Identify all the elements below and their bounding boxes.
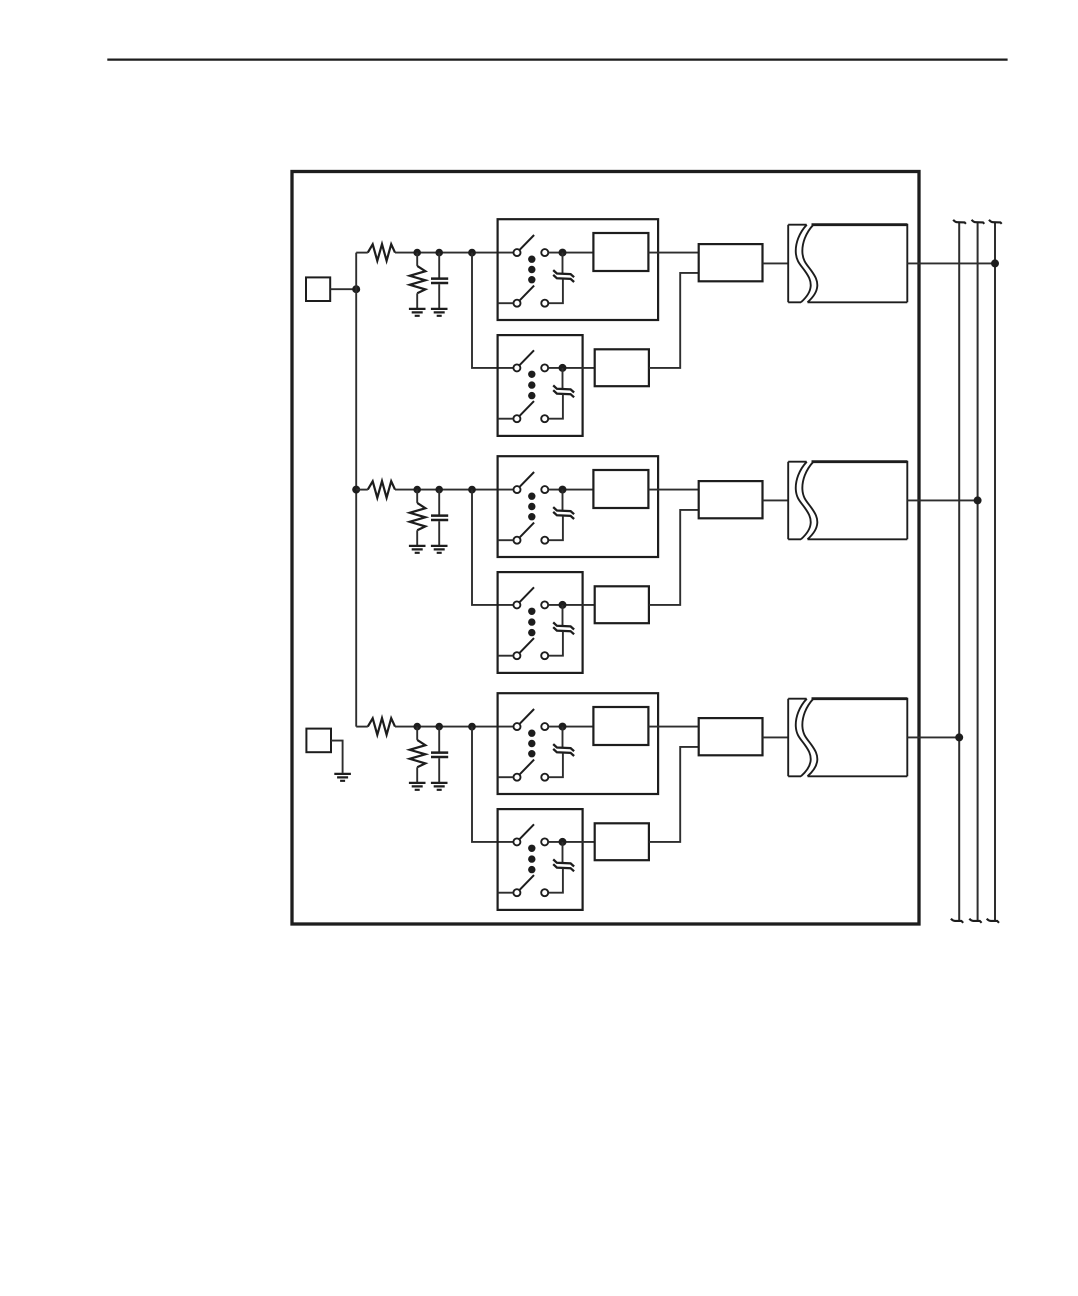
UB2 wire contact to amplifier bbox=[548, 604, 594, 606]
wire branch node to lower switch box row C bbox=[472, 727, 513, 842]
shunt capacitor CA1 plates bbox=[431, 279, 448, 283]
junction dot row A shunt resistor node bbox=[413, 249, 421, 257]
UA1 top switch arm bbox=[519, 235, 534, 250]
UA2 ellipsis dots bbox=[528, 371, 535, 378]
series resistor RC1 bbox=[368, 718, 395, 735]
header rule bbox=[107, 58, 1007, 60]
UB1 tuning cap top lead bbox=[562, 490, 564, 511]
UA1 tuning cap top lead bbox=[562, 253, 564, 274]
shunt resistor RB2 bbox=[410, 503, 426, 530]
UC2 bottom switch arm bbox=[519, 875, 534, 890]
UB2 bottom-left switch contact bbox=[513, 652, 520, 659]
output stage TC break curve 1 bbox=[796, 699, 811, 777]
junction dot row B on external bus bbox=[974, 496, 982, 504]
UB1 top-left switch contact bbox=[514, 486, 521, 493]
input pin square P2 bbox=[306, 729, 331, 753]
UB2 junction dot at tuning cap bbox=[559, 601, 567, 609]
UC2 tuning cap top lead bbox=[562, 842, 564, 863]
UA2 tuning capacitor bbox=[553, 385, 574, 397]
shunt capacitor CB1 bottom lead bbox=[438, 521, 440, 546]
UC1 tuning capacitor bbox=[553, 744, 574, 756]
UA1 bottom-left switch contact bbox=[514, 300, 521, 307]
UB1 top switch arm bbox=[519, 472, 534, 487]
wire MB to output stage bbox=[763, 499, 789, 501]
output stage TB body bbox=[812, 460, 908, 463]
shunt resistor RA2 lower lead bbox=[416, 293, 418, 309]
junction dot row B shunt resistor node bbox=[413, 486, 421, 494]
UC2 ellipsis dots bbox=[528, 845, 535, 852]
UB2 tuning cap bottom wire bbox=[548, 632, 563, 656]
UB1 tuning cap bottom wire bbox=[548, 516, 563, 540]
lower switch box UB2 bbox=[498, 572, 583, 673]
UA1 bottom-left stub wire bbox=[498, 302, 514, 304]
UB1 bottom switch arm bbox=[519, 523, 534, 538]
output stage TB left bracket bbox=[788, 462, 806, 540]
bus line 3 top break mark bbox=[989, 220, 1002, 224]
UA2 top switch arm bbox=[519, 350, 534, 365]
wire AB2 up to mixer block bbox=[649, 510, 699, 605]
shunt capacitor CB1 top lead bbox=[438, 490, 440, 515]
series resistor RB1 bbox=[368, 481, 395, 498]
shunt capacitor CA1 top lead bbox=[438, 253, 440, 278]
junction dot bus/row2 bbox=[352, 486, 360, 494]
UB1 ellipsis dots bbox=[528, 493, 535, 500]
output stage TC body bbox=[812, 697, 908, 700]
UC2 top-right switch contact bbox=[541, 838, 548, 845]
main wire row A into switch box bbox=[395, 252, 513, 254]
UA1 wire contact to amplifier bbox=[548, 252, 593, 254]
UC1 tuning cap top lead bbox=[562, 727, 564, 748]
junction dot row A shunt capacitor node bbox=[435, 249, 443, 257]
UA2 bottom-right switch contact bbox=[541, 415, 548, 422]
main wire row B into switch box bbox=[395, 489, 513, 491]
shunt resistor RC2 lead bbox=[416, 727, 418, 740]
UB2 tuning capacitor bbox=[553, 622, 574, 634]
output stage TA break curve 2 bbox=[802, 225, 817, 303]
junction dot row B branch node bbox=[468, 486, 476, 494]
bus line 3 bottom break mark bbox=[987, 919, 999, 923]
wire bus to series resistor RC1 (row C) bbox=[356, 726, 368, 728]
output wire row A to external bus bbox=[907, 262, 995, 264]
ground for RA2 bbox=[409, 309, 426, 316]
shunt resistor RC2 bbox=[410, 740, 426, 767]
UB1 junction dot at tuning cap bbox=[559, 486, 567, 494]
shunt resistor RB2 lower lead bbox=[416, 530, 418, 546]
shunt resistor RA2 lead bbox=[416, 253, 418, 266]
UB2 bottom switch arm bbox=[519, 638, 534, 653]
UC2 tuning capacitor bbox=[553, 859, 574, 871]
mixer block MB bbox=[699, 481, 763, 518]
UC1 top-left switch contact bbox=[514, 723, 521, 730]
output stage TA body bbox=[812, 223, 908, 226]
junction dot row A on external bus bbox=[991, 259, 999, 267]
wire AC1 to mixer block bbox=[648, 726, 698, 728]
wire bus to series resistor RB1 (row B) bbox=[356, 489, 368, 491]
shunt resistor RB2 lead bbox=[416, 490, 418, 503]
wire AA2 up to mixer block bbox=[649, 273, 699, 368]
bus line 2 bottom break mark bbox=[969, 919, 981, 923]
junction dot at P1/bus bbox=[352, 285, 360, 293]
external bus line 2 bbox=[977, 222, 979, 921]
main wire row C into switch box bbox=[395, 726, 513, 728]
UA1 bottom-right switch contact bbox=[541, 300, 548, 307]
UA1 tuning cap bottom wire bbox=[548, 279, 563, 303]
UC1 bottom-left stub wire bbox=[498, 776, 514, 778]
amplifier block AA2 bbox=[595, 349, 649, 386]
UC2 wire contact to amplifier bbox=[548, 841, 594, 843]
upper switch box UB1 bbox=[498, 456, 658, 557]
shunt capacitor CA1 bottom lead bbox=[438, 284, 440, 309]
shunt capacitor CC1 top lead bbox=[438, 727, 440, 752]
UC2 bottom-right switch contact bbox=[541, 889, 548, 896]
bus line 1 top break mark bbox=[953, 220, 966, 224]
UC2 top switch arm bbox=[519, 824, 534, 839]
UA2 top-left switch contact bbox=[513, 364, 520, 371]
shunt capacitor CC1 plates bbox=[431, 753, 448, 757]
wire branch node to lower switch box row A bbox=[472, 253, 513, 368]
UC1 wire contact to amplifier bbox=[548, 726, 593, 728]
output stage TC left bracket bbox=[788, 699, 806, 777]
ground for RC2 bbox=[409, 783, 426, 790]
wire from pin P2 to ground bbox=[331, 741, 343, 773]
UC1 bottom switch arm bbox=[519, 760, 534, 775]
shunt resistor RC2 lower lead bbox=[416, 767, 418, 783]
external bus line 1 bbox=[958, 222, 960, 921]
amplifier block AB2 bbox=[595, 586, 649, 623]
UB2 top-left switch contact bbox=[513, 601, 520, 608]
upper switch box UA1 bbox=[498, 219, 658, 320]
UA2 bottom-left switch contact bbox=[513, 415, 520, 422]
junction dot row A branch node bbox=[468, 249, 476, 257]
wire bus to series resistor RA1 (row A) bbox=[356, 252, 368, 254]
UC1 top-right switch contact bbox=[541, 723, 548, 730]
UB1 bottom-right switch contact bbox=[541, 537, 548, 544]
junction dot row C shunt resistor node bbox=[413, 723, 421, 731]
UA1 top-left switch contact bbox=[514, 249, 521, 256]
UA1 tuning capacitor bbox=[553, 270, 574, 282]
amplifier block AC1 bbox=[593, 707, 648, 745]
UB1 wire contact to amplifier bbox=[548, 489, 593, 491]
UB2 bottom-left stub wire bbox=[498, 655, 514, 657]
UC2 junction dot at tuning cap bbox=[559, 838, 567, 846]
output stage TB break curve 2 bbox=[802, 462, 817, 540]
junction dot row C shunt capacitor node bbox=[435, 723, 443, 731]
UA2 top-right switch contact bbox=[541, 364, 548, 371]
input bus vertical wire bbox=[355, 253, 357, 727]
junction dot row C on external bus bbox=[955, 733, 963, 741]
output stage TB break curve 1 bbox=[796, 462, 811, 540]
UA1 bottom switch arm bbox=[519, 286, 534, 301]
UC1 bottom-left switch contact bbox=[514, 774, 521, 781]
UB1 top-right switch contact bbox=[541, 486, 548, 493]
ground for CB1 bbox=[431, 546, 448, 553]
output stage TA left bracket bbox=[788, 225, 806, 303]
UC1 top switch arm bbox=[519, 709, 534, 724]
UC2 bottom-left stub wire bbox=[498, 892, 514, 894]
upper switch box UC1 bbox=[498, 693, 658, 794]
output stage TA break curve 1 bbox=[796, 225, 811, 303]
UC2 top-left switch contact bbox=[513, 838, 520, 845]
wire MC to output stage bbox=[763, 736, 789, 738]
wire AB1 to mixer block bbox=[648, 489, 698, 491]
wire AA1 to mixer block bbox=[648, 252, 698, 254]
wire branch node to lower switch box row B bbox=[472, 490, 513, 605]
amplifier block AC2 bbox=[595, 823, 649, 860]
junction dot row C branch node bbox=[468, 723, 476, 731]
UA1 top-right switch contact bbox=[541, 249, 548, 256]
UC2 tuning cap bottom wire bbox=[548, 869, 563, 893]
UB1 bottom-left switch contact bbox=[514, 537, 521, 544]
UB2 top switch arm bbox=[519, 587, 534, 602]
shunt capacitor CB1 plates bbox=[431, 516, 448, 520]
UB1 bottom-left stub wire bbox=[498, 539, 514, 541]
UB2 bottom-right switch contact bbox=[541, 652, 548, 659]
lower switch box UA2 bbox=[498, 335, 583, 436]
UB2 top-right switch contact bbox=[541, 601, 548, 608]
UB1 tuning capacitor bbox=[553, 507, 574, 519]
input pin square P1 bbox=[306, 277, 330, 301]
ground for P2 bbox=[334, 774, 351, 781]
UC1 tuning cap bottom wire bbox=[548, 753, 563, 777]
UA1 ellipsis dots bbox=[528, 256, 535, 263]
output wire row C to external bus bbox=[907, 736, 959, 738]
wire AC2 up to mixer block bbox=[649, 747, 699, 842]
UA2 tuning cap bottom wire bbox=[548, 395, 563, 419]
UA2 junction dot at tuning cap bbox=[559, 364, 567, 372]
bus line 2 top break mark bbox=[972, 220, 985, 224]
UA2 tuning cap top lead bbox=[562, 368, 564, 389]
UA2 wire contact to amplifier bbox=[548, 367, 594, 369]
shunt capacitor CC1 bottom lead bbox=[438, 758, 440, 783]
lower switch box UC2 bbox=[498, 809, 583, 910]
output wire row B to external bus bbox=[907, 499, 977, 501]
amplifier block AA1 bbox=[593, 233, 648, 271]
mixer block MA bbox=[699, 244, 763, 281]
mixer block MC bbox=[699, 718, 763, 755]
wire from pin P1 to input bus bbox=[330, 288, 356, 290]
UB2 tuning cap top lead bbox=[562, 605, 564, 626]
UC2 bottom-left switch contact bbox=[513, 889, 520, 896]
UA2 bottom-left stub wire bbox=[498, 418, 514, 420]
UA2 bottom switch arm bbox=[519, 401, 534, 416]
ground for CA1 bbox=[431, 309, 448, 316]
UC1 junction dot at tuning cap bbox=[559, 723, 567, 731]
UC1 ellipsis dots bbox=[528, 730, 535, 737]
series resistor RA1 bbox=[368, 244, 395, 261]
UA1 junction dot at tuning cap bbox=[559, 249, 567, 257]
bus line 1 bottom break mark bbox=[951, 919, 963, 923]
junction dot row B shunt capacitor node bbox=[435, 486, 443, 494]
amplifier block AB1 bbox=[593, 470, 648, 508]
ground for CC1 bbox=[431, 783, 448, 790]
UB2 ellipsis dots bbox=[528, 608, 535, 615]
outer block border bbox=[292, 172, 919, 925]
ground for RB2 bbox=[409, 546, 426, 553]
UC1 bottom-right switch contact bbox=[541, 774, 548, 781]
output stage TC break curve 2 bbox=[802, 699, 817, 777]
shunt resistor RA2 bbox=[410, 266, 426, 293]
wire MA to output stage bbox=[763, 262, 789, 264]
external bus line 3 bbox=[994, 222, 996, 921]
